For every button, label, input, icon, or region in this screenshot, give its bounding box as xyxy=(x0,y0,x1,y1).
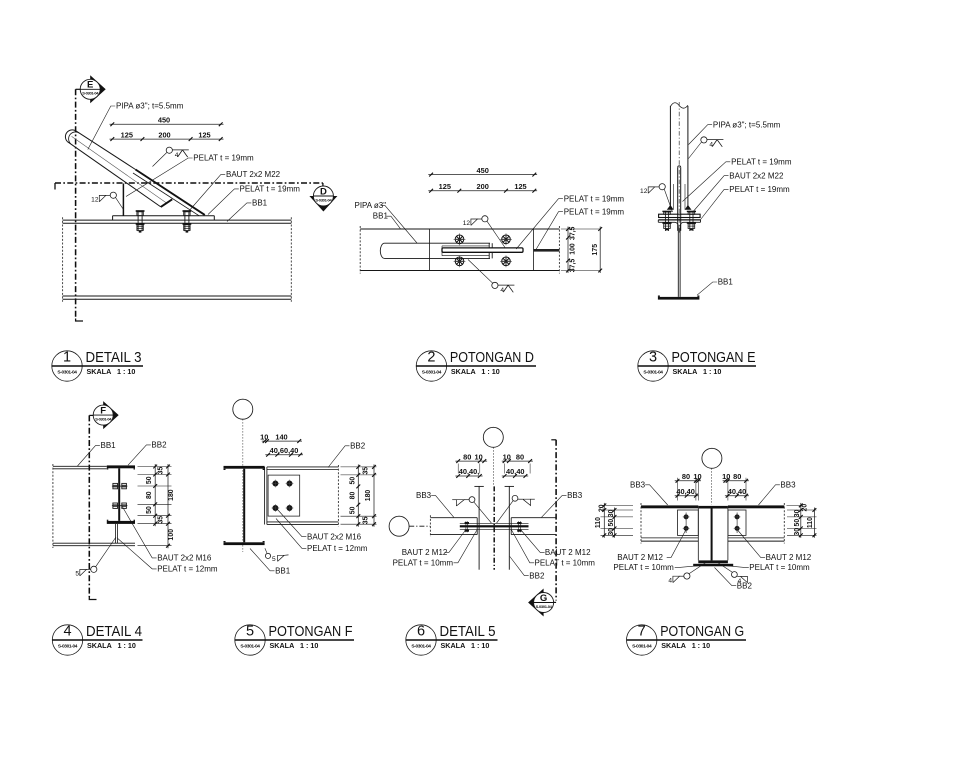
svg-text:140: 140 xyxy=(275,432,287,441)
svg-text:50: 50 xyxy=(146,506,153,514)
svg-text:30: 30 xyxy=(608,509,615,517)
svg-text:125: 125 xyxy=(121,130,133,139)
svg-text:10: 10 xyxy=(474,452,482,461)
svg-text:SKALA: SKALA xyxy=(673,367,698,376)
svg-text:4: 4 xyxy=(668,577,672,584)
svg-text:S-0301-04: S-0301-04 xyxy=(422,370,442,376)
svg-text:30: 30 xyxy=(794,528,801,536)
svg-text:30: 30 xyxy=(794,509,801,517)
svg-text:110: 110 xyxy=(807,517,814,528)
svg-text:SKALA: SKALA xyxy=(451,367,476,376)
svg-text:POTONGAN F: POTONGAN F xyxy=(269,623,353,640)
svg-text:BB3: BB3 xyxy=(780,480,796,489)
svg-text:S-0301-04: S-0301-04 xyxy=(240,644,260,650)
svg-text:12: 12 xyxy=(91,197,99,204)
svg-text:BB1: BB1 xyxy=(101,441,117,450)
svg-text:12: 12 xyxy=(640,188,648,195)
svg-text:SKALA: SKALA xyxy=(661,641,686,650)
svg-text:30: 30 xyxy=(608,528,615,536)
svg-text:PELAT t = 10mm: PELAT t = 10mm xyxy=(749,563,810,572)
svg-text:1 : 10: 1 : 10 xyxy=(692,641,710,650)
svg-text:80: 80 xyxy=(146,491,153,499)
svg-text:DETAIL 4: DETAIL 4 xyxy=(86,623,142,640)
svg-text:80: 80 xyxy=(516,452,524,461)
svg-text:BAUT 2 M12: BAUT 2 M12 xyxy=(402,548,448,557)
svg-text:6: 6 xyxy=(417,624,425,640)
svg-text:35: 35 xyxy=(158,516,165,524)
svg-text:S-0301-04: S-0301-04 xyxy=(57,370,77,376)
svg-text:5: 5 xyxy=(272,556,276,563)
svg-text:50: 50 xyxy=(794,519,801,527)
svg-text:BB2: BB2 xyxy=(737,581,753,590)
svg-text:PELAT t = 19mm: PELAT t = 19mm xyxy=(564,207,625,216)
svg-text:PELAT t = 19mm: PELAT t = 19mm xyxy=(731,157,792,166)
svg-text:G: G xyxy=(540,593,547,604)
svg-text:450: 450 xyxy=(477,166,489,175)
svg-text:S-0301-04: S-0301-04 xyxy=(58,644,78,650)
svg-text:BB1: BB1 xyxy=(373,212,389,221)
svg-text:PELAT t = 19mm: PELAT t = 19mm xyxy=(729,185,790,194)
svg-text:POTONGAN G: POTONGAN G xyxy=(660,623,744,640)
svg-text:1 : 10: 1 : 10 xyxy=(117,367,135,376)
svg-text:12: 12 xyxy=(463,220,471,227)
svg-text:E: E xyxy=(87,80,93,91)
svg-text:S-0301-04: S-0301-04 xyxy=(411,644,431,650)
svg-text:PELAT t = 12mm: PELAT t = 12mm xyxy=(157,565,218,574)
svg-text:450: 450 xyxy=(158,116,170,125)
svg-text:20: 20 xyxy=(599,504,606,512)
svg-text:37,5: 37,5 xyxy=(570,226,577,240)
svg-text:F: F xyxy=(100,406,106,417)
svg-text:80: 80 xyxy=(733,472,741,481)
svg-text:10: 10 xyxy=(693,472,701,481)
svg-text:BB3: BB3 xyxy=(416,491,432,500)
svg-text:S-0301-04: S-0301-04 xyxy=(95,417,112,422)
svg-text:1 : 10: 1 : 10 xyxy=(703,367,721,376)
svg-text:PELAT t = 12mm: PELAT t = 12mm xyxy=(307,544,368,553)
svg-text:80: 80 xyxy=(682,472,690,481)
svg-text:4: 4 xyxy=(63,624,71,640)
svg-text:PELAT t = 19mm: PELAT t = 19mm xyxy=(564,194,625,203)
svg-text:SKALA: SKALA xyxy=(441,641,466,650)
svg-text:S-0301-04: S-0301-04 xyxy=(632,644,652,650)
svg-text:200: 200 xyxy=(158,130,170,139)
svg-text:20: 20 xyxy=(802,504,809,512)
svg-text:SKALA: SKALA xyxy=(87,367,112,376)
svg-text:1 : 10: 1 : 10 xyxy=(481,367,499,376)
svg-text:DETAIL 5: DETAIL 5 xyxy=(440,623,496,640)
svg-text:PELAT t = 19mm: PELAT t = 19mm xyxy=(193,153,254,162)
svg-text:PIPA ø3"; t=5.5mm: PIPA ø3"; t=5.5mm xyxy=(116,101,184,110)
svg-text:7: 7 xyxy=(638,624,646,640)
svg-text:PELAT t = 19mm: PELAT t = 19mm xyxy=(240,184,301,193)
svg-text:40,40,: 40,40, xyxy=(459,467,480,476)
svg-text:BB1: BB1 xyxy=(718,278,734,287)
svg-text:10: 10 xyxy=(260,432,268,441)
svg-text:BB1: BB1 xyxy=(252,198,268,207)
svg-text:BAUT 2x2 M16: BAUT 2x2 M16 xyxy=(307,532,362,541)
svg-text:BB2: BB2 xyxy=(350,441,366,450)
svg-text:S-0301-04: S-0301-04 xyxy=(643,370,663,376)
svg-text:1 : 10: 1 : 10 xyxy=(471,641,489,650)
svg-text:S-0301-04: S-0301-04 xyxy=(82,91,99,96)
svg-text:BAUT 2 M12: BAUT 2 M12 xyxy=(766,553,812,562)
svg-text:50: 50 xyxy=(350,506,357,514)
svg-text:40,40: 40,40 xyxy=(728,487,747,496)
svg-text:125: 125 xyxy=(514,182,526,191)
svg-text:DETAIL 3: DETAIL 3 xyxy=(86,349,142,366)
svg-text:BAUT 2 M12: BAUT 2 M12 xyxy=(617,553,663,562)
svg-text:BAUT 2x2 M22: BAUT 2x2 M22 xyxy=(226,170,281,179)
svg-text:5: 5 xyxy=(75,571,79,578)
svg-text:35: 35 xyxy=(158,467,165,475)
svg-text:D: D xyxy=(320,186,327,197)
svg-text:PELAT t = 10mm: PELAT t = 10mm xyxy=(613,563,674,572)
svg-text:125: 125 xyxy=(198,130,210,139)
svg-text:1 : 10: 1 : 10 xyxy=(118,641,136,650)
svg-text:40,40: 40,40 xyxy=(506,467,525,476)
svg-text:200: 200 xyxy=(477,182,489,191)
svg-text:SKALA: SKALA xyxy=(87,641,112,650)
svg-text:50: 50 xyxy=(608,519,615,527)
svg-text:180: 180 xyxy=(365,490,372,502)
svg-text:35: 35 xyxy=(363,516,370,524)
svg-text:BB1: BB1 xyxy=(275,566,291,575)
svg-text:80: 80 xyxy=(463,452,471,461)
svg-text:POTONGAN D: POTONGAN D xyxy=(450,349,534,366)
svg-text:50: 50 xyxy=(350,477,357,485)
svg-text:100: 100 xyxy=(168,529,175,541)
svg-text:BB2: BB2 xyxy=(529,571,545,580)
svg-text:35: 35 xyxy=(363,467,370,475)
svg-text:3: 3 xyxy=(649,350,657,366)
svg-text:BAUT 2x2 M22: BAUT 2x2 M22 xyxy=(729,171,784,180)
svg-text:40,40,: 40,40, xyxy=(676,487,697,496)
svg-text:37,5: 37,5 xyxy=(570,259,577,273)
svg-text:2: 2 xyxy=(427,350,435,366)
svg-text:110: 110 xyxy=(595,517,602,528)
svg-text:BB3: BB3 xyxy=(630,480,646,489)
svg-text:PELAT t = 10mm: PELAT t = 10mm xyxy=(393,558,454,567)
svg-text:50: 50 xyxy=(146,476,153,484)
svg-text:80: 80 xyxy=(350,492,357,500)
svg-text:125: 125 xyxy=(439,182,451,191)
svg-text:BAUT 2 M12: BAUT 2 M12 xyxy=(545,548,591,557)
svg-text:PIPA ø3"; t=5.5mm: PIPA ø3"; t=5.5mm xyxy=(713,120,781,129)
svg-text:10: 10 xyxy=(722,472,730,481)
svg-text:POTONGAN E: POTONGAN E xyxy=(672,349,756,366)
svg-text:S-0301-04: S-0301-04 xyxy=(315,197,332,202)
svg-text:5: 5 xyxy=(246,624,254,640)
svg-text:10: 10 xyxy=(503,452,511,461)
svg-text:SKALA: SKALA xyxy=(270,641,295,650)
svg-text:BB2: BB2 xyxy=(151,441,167,450)
svg-text:BAUT 2x2 M16: BAUT 2x2 M16 xyxy=(157,554,212,563)
svg-text:S-0301-04: S-0301-04 xyxy=(536,604,553,609)
svg-text:1 : 10: 1 : 10 xyxy=(300,641,318,650)
svg-text:175: 175 xyxy=(592,244,599,256)
svg-text:BB3: BB3 xyxy=(567,491,583,500)
svg-text:100: 100 xyxy=(570,243,577,255)
svg-text:40,60,40: 40,60,40 xyxy=(270,446,299,455)
svg-text:PELAT t = 10mm: PELAT t = 10mm xyxy=(535,558,596,567)
svg-text:1: 1 xyxy=(63,350,71,366)
svg-text:180: 180 xyxy=(168,489,175,501)
